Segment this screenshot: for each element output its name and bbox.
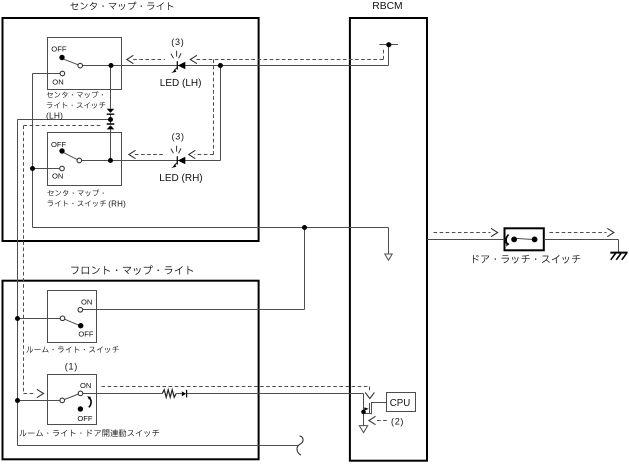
svg-text:OFF: OFF (77, 414, 93, 423)
svg-text:ON: ON (52, 77, 63, 86)
svg-text:(2): (2) (391, 417, 404, 427)
svg-text:(3): (3) (171, 37, 184, 47)
svg-text:(LH): (LH) (46, 111, 63, 121)
svg-text:OFF: OFF (78, 330, 94, 339)
svg-text:(1): (1) (65, 362, 78, 372)
svg-text:LED (LH): LED (LH) (160, 78, 202, 89)
svg-text:OFF: OFF (51, 44, 67, 53)
svg-text:OFF: OFF (51, 140, 67, 149)
svg-text:ON: ON (80, 381, 91, 390)
svg-text:LED (RH): LED (RH) (159, 173, 202, 184)
svg-text:ON: ON (81, 297, 92, 306)
svg-text:(RH): (RH) (108, 199, 126, 208)
svg-text:CPU: CPU (390, 398, 410, 409)
svg-text:RBCM: RBCM (372, 1, 402, 12)
svg-text:ON: ON (52, 172, 63, 181)
svg-text:(3): (3) (172, 132, 185, 142)
